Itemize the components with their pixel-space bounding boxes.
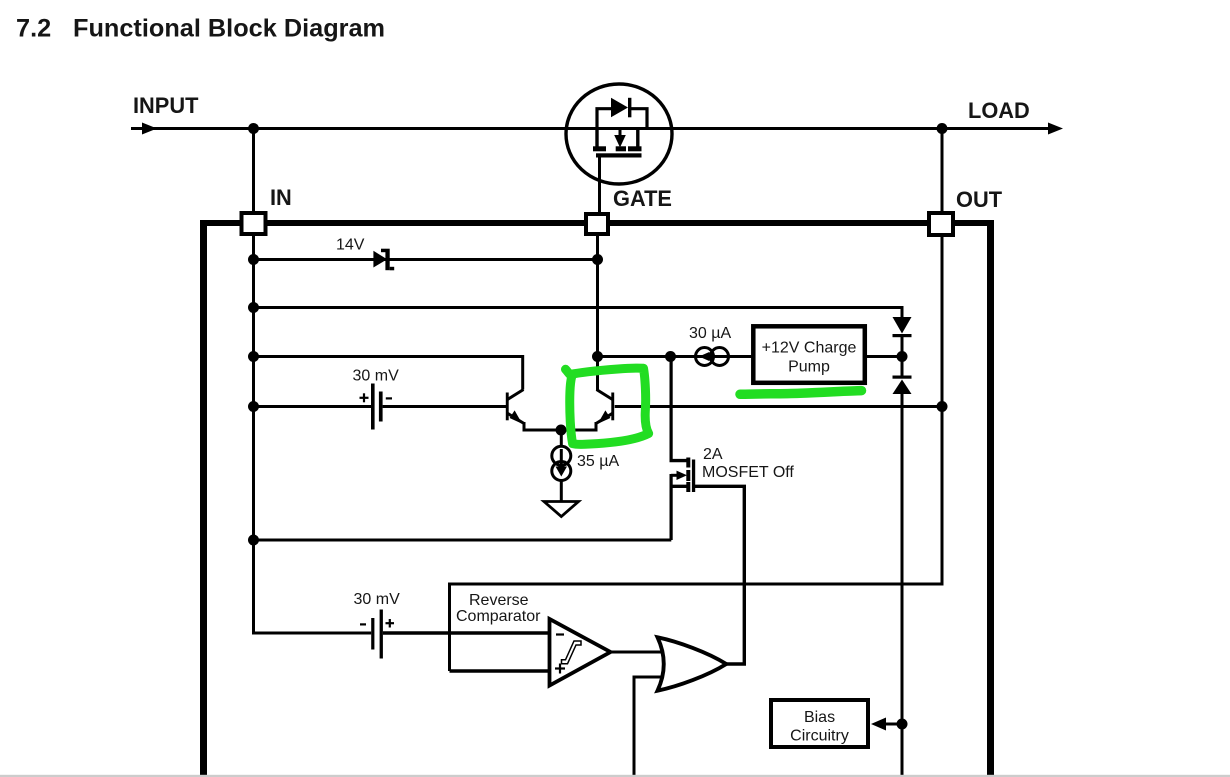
IC boundary box top border	[200, 220, 994, 226]
annotation marker underline charge pump	[740, 391, 862, 395]
junction GATE/Q2 collector	[592, 351, 603, 362]
junction IN/source return	[248, 535, 259, 546]
annotation marker box around Q2	[566, 368, 649, 444]
junction pump/diodes	[897, 351, 908, 362]
block +12V charge pump	[753, 326, 865, 383]
svg-text:+12V Charge: +12V Charge	[762, 340, 857, 357]
junction Q2 base / OUT net	[937, 401, 948, 412]
junction bias/net	[897, 719, 908, 730]
battery 30mV upper	[360, 384, 393, 430]
wire comparator plus loop	[450, 584, 943, 671]
wire bias feed	[884, 723, 902, 726]
LOAD arrowhead	[1048, 123, 1063, 135]
svg-text:Comparator: Comparator	[456, 608, 541, 625]
wire OUT drop	[941, 129, 944, 213]
IC boundary box left border	[200, 220, 207, 777]
wire IN to battery upper	[254, 405, 372, 408]
wire between diodes	[901, 336, 904, 376]
svg-text:35 µA: 35 µA	[577, 453, 619, 470]
junction GATE/14V	[592, 254, 603, 265]
wire collector rail left segment	[254, 357, 523, 390]
svg-text:30 mV: 30 mV	[354, 591, 401, 608]
bias arrowhead	[871, 718, 886, 731]
wire comparator plus input	[450, 669, 550, 673]
pin IN pad	[242, 213, 266, 234]
wire IN corner to battery lower	[252, 632, 371, 635]
svg-text:Circuitry: Circuitry	[790, 728, 849, 745]
junction IN/collector rail	[248, 351, 259, 362]
svg-text:Pump: Pump	[788, 359, 830, 376]
wire 30uA rail	[598, 355, 752, 358]
svg-text:Bias: Bias	[804, 709, 835, 726]
wire upper rail to diode chain	[254, 308, 903, 319]
pass transistor gate bar	[596, 153, 642, 157]
wire 14V clamp rail	[254, 258, 598, 261]
block bias circuitry	[771, 700, 868, 747]
wire IN net vertical	[252, 236, 255, 634]
IC boundary box right border	[987, 220, 994, 777]
svg-text:2A: 2A	[703, 446, 723, 463]
current source 35uA	[552, 430, 571, 502]
wire comparator output	[610, 651, 664, 654]
pin OUT pad	[929, 213, 953, 235]
pass transistor drain contact	[593, 129, 606, 152]
junction LOAD/OUT	[937, 123, 948, 134]
pass transistor body diode	[597, 98, 647, 129]
wire pump output	[867, 355, 902, 358]
svg-text:Functional Block Diagram: Functional Block Diagram	[73, 14, 385, 42]
pass transistor circle	[566, 84, 672, 184]
diode D1	[893, 317, 912, 337]
junction INPUT/IN	[248, 123, 259, 134]
wire battery to comparator minus	[383, 631, 549, 635]
wire IN drop	[252, 129, 255, 213]
wire gate bar to GATE pad	[598, 157, 601, 213]
svg-text:30 µA: 30 µA	[689, 325, 731, 342]
junction emitters	[556, 425, 567, 436]
wire OUT net vertical	[941, 236, 944, 586]
wire emitters rail	[523, 429, 598, 432]
junction IN/y307 rail	[248, 302, 259, 313]
battery 30mV lower	[360, 610, 394, 659]
wire GATE net vertical	[596, 236, 599, 358]
wire OR1 output	[726, 662, 746, 665]
comparator U1 reverse	[550, 619, 611, 686]
svg-text:INPUT: INPUT	[133, 93, 199, 118]
diode D2	[893, 376, 912, 395]
wire source return y540	[254, 539, 672, 542]
INPUT arrowhead	[142, 123, 157, 135]
junction IN/14V	[248, 254, 259, 265]
svg-text:30 mV: 30 mV	[353, 368, 400, 385]
pin GATE pad	[586, 214, 608, 234]
svg-text:OUT: OUT	[956, 187, 1003, 212]
svg-text:Reverse: Reverse	[469, 592, 529, 609]
transistor Q1 PNP	[506, 390, 524, 431]
wire Q2 base rail	[615, 405, 942, 408]
svg-text:IN: IN	[270, 185, 292, 210]
svg-text:GATE: GATE	[613, 186, 672, 211]
pass transistor source contact	[628, 129, 642, 152]
wire battery to Q1 base	[383, 405, 506, 408]
zener diode 14V	[373, 249, 394, 271]
page edge bottom	[0, 775, 1230, 777]
svg-text:LOAD: LOAD	[968, 98, 1030, 123]
wire OR1 lower input	[634, 677, 663, 777]
junction IN/Q1 base	[248, 401, 259, 412]
pass transistor channel arrow	[614, 130, 626, 152]
wire INPUT-LOAD top rail	[131, 127, 1057, 130]
transistor M1 2A MOSFET off	[670, 357, 747, 541]
svg-text:14V: 14V	[336, 237, 365, 254]
svg-text:MOSFET Off: MOSFET Off	[702, 464, 794, 481]
transistor Q2 PNP	[596, 357, 614, 430]
svg-text:7.2: 7.2	[16, 14, 51, 42]
hysteresis symbol	[562, 641, 582, 664]
junction 30uA rail / M1 drain	[665, 351, 676, 362]
current source 30uA	[696, 348, 729, 366]
ground	[544, 502, 579, 517]
gate OR1	[658, 637, 727, 690]
wire bias net vertical	[901, 394, 904, 777]
wire M1 gate riser	[743, 486, 746, 664]
